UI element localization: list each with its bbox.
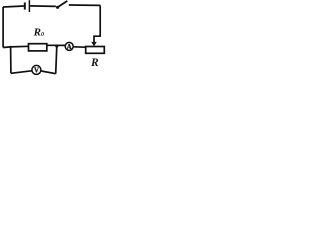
rheostat wiper arrowhead bbox=[91, 42, 97, 46]
battery negative plate (short) bbox=[24, 3, 26, 10]
voltmeter V circle bbox=[32, 65, 41, 74]
wire right vertical bbox=[99, 5, 101, 36]
node junction left (voltmeter tap) bbox=[9, 46, 11, 48]
svg-text:A: A bbox=[67, 43, 72, 51]
wire R0 to ammeter with junction bbox=[47, 44, 65, 46]
wire voltmeter branch bottom right bbox=[41, 71, 55, 74]
wire voltmeter branch bottom left bbox=[11, 71, 32, 74]
node junction right (voltmeter tap) bbox=[55, 44, 58, 47]
switch S pivot dot bbox=[56, 6, 59, 9]
rheostat R box bbox=[86, 47, 105, 54]
wire top left to battery bbox=[3, 6, 24, 7]
svg-text:R: R bbox=[90, 57, 99, 69]
battery positive plate (long) bbox=[28, 0, 30, 12]
switch S lever bbox=[59, 1, 68, 7]
wire left vertical bbox=[2, 7, 4, 48]
wire jog to wiper bbox=[94, 36, 101, 42]
wire voltmeter branch left vertical bbox=[10, 47, 12, 73]
wire bottom left corner to R0 bbox=[3, 46, 28, 47]
wire voltmeter branch right vertical bbox=[56, 46, 57, 73]
resistor R0 box bbox=[29, 44, 47, 51]
svg-text:V: V bbox=[34, 67, 39, 74]
wire battery to switch bbox=[30, 5, 56, 8]
wire switch to top right corner bbox=[69, 4, 100, 6]
ammeter A circle bbox=[65, 42, 73, 50]
wire ammeter to rheostat bbox=[73, 46, 85, 48]
